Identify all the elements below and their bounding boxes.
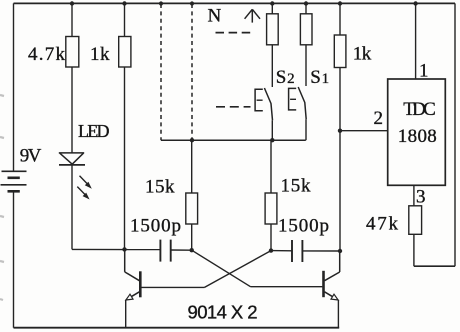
switch S1 blade — [298, 87, 306, 119]
svg-text:4.7k: 4.7k — [28, 44, 66, 65]
svg-text:S2: S2 — [276, 67, 295, 88]
node top rail at R4 — [304, 1, 308, 5]
transistor Q2 9014 (right) — [324, 251, 340, 328]
wire S2 to bus — [271, 120, 273, 140]
wire LED cathode down — [71, 165, 73, 250]
wire TDC pin 3 — [413, 185, 415, 206]
svg-text:1k: 1k — [353, 44, 372, 65]
dashed linkage to S2 — [216, 106, 251, 108]
arrow up (direction of motion) — [245, 9, 260, 22]
wire right base lead — [251, 286, 323, 288]
wire bottom ground rail — [14, 327, 340, 329]
svg-text:LED: LED — [78, 121, 110, 141]
wire C2 to right collector — [302, 250, 340, 252]
svg-text:9014 X 2: 9014 X 2 — [188, 301, 258, 322]
svg-text:9V: 9V — [20, 145, 42, 166]
IC U1 TDC1808 — [388, 79, 446, 185]
battery B1 9V — [1, 171, 27, 191]
node top rail at dashed right — [190, 1, 194, 5]
node left cap / 15k — [190, 248, 194, 252]
wire TDC pin 2 — [340, 130, 388, 132]
svg-text:TDC: TDC — [403, 99, 436, 120]
svg-text:S1: S1 — [310, 67, 329, 88]
svg-text:3: 3 — [416, 186, 426, 207]
wire 1k right branch — [339, 4, 341, 35]
svg-text:47k: 47k — [366, 214, 399, 235]
svg-text:1808: 1808 — [398, 126, 437, 147]
svg-text:15k: 15k — [281, 175, 312, 196]
node top rail at R3 — [270, 1, 274, 5]
LED light arrow 1 — [80, 176, 92, 189]
LED light arrow 2 — [77, 187, 89, 200]
resistor R4 (S1 pull-up) — [300, 14, 312, 45]
svg-text:N: N — [208, 6, 222, 27]
wire left 15k top — [191, 140, 193, 193]
node bus at S2/15k right — [270, 138, 274, 142]
node N dashed pointer — [216, 32, 252, 34]
wire 1k down to collector node — [124, 67, 126, 249]
wire R3 to S2 contact — [271, 45, 273, 87]
node left collector — [122, 247, 126, 251]
wire S1 to bus — [305, 119, 307, 140]
node top rail at dashed left — [159, 1, 163, 5]
node top rail at 4.7k — [70, 1, 74, 5]
capacitor C2 1500p right — [292, 240, 302, 262]
wire left 15k bottom — [191, 224, 193, 250]
wire right vertical — [454, 3, 456, 266]
switch S2 blade — [264, 88, 272, 120]
wire dashed branch right — [191, 4, 193, 140]
switch S2 actuator bracket — [255, 89, 263, 111]
wire S1 pullup branch — [305, 4, 307, 14]
wire 4.7k branch top — [71, 4, 73, 37]
resistor R2 1k — [119, 37, 131, 68]
wire switch bus — [161, 139, 306, 141]
resistor R6 15k right — [265, 193, 277, 224]
resistor R3 (S2 pull-up) — [267, 14, 279, 45]
wire 47k bottom to right vertical — [414, 265, 455, 267]
wire R7 down to collector node — [339, 68, 341, 252]
resistor R7 1k right — [334, 35, 346, 68]
wire cross-couple left base to right 15k node — [205, 251, 272, 288]
resistor R8 47k — [409, 206, 422, 235]
wire right 15k bottom — [270, 224, 272, 251]
svg-text:15k: 15k — [145, 176, 175, 197]
wire S2 pullup branch — [271, 4, 273, 14]
wire base node to C2 — [271, 250, 292, 252]
node bus at 15k left — [190, 138, 194, 142]
resistor R1 4.7k — [66, 37, 79, 68]
wire left vertical (battery branch) — [13, 3, 15, 170]
wire C1 to base node — [171, 249, 192, 251]
scan artifacts left edge — [0, 95, 4, 300]
svg-text:1: 1 — [419, 60, 429, 81]
svg-text:1k: 1k — [90, 44, 110, 65]
svg-text:2: 2 — [374, 108, 384, 129]
wire R4 to S1 contact — [305, 45, 307, 86]
wire cross-couple right base to left 15k node — [192, 250, 251, 287]
wire 47k bottom — [413, 234, 415, 266]
wire 4.7k to LED — [71, 67, 73, 153]
transistor Q1 9014 (left) — [125, 249, 141, 327]
svg-text:1500p: 1500p — [130, 215, 181, 236]
switch S1 actuator bracket — [289, 88, 297, 110]
resistor R5 15k left — [186, 193, 198, 224]
wire left base lead — [141, 286, 204, 288]
node top rail at 1k right — [338, 1, 342, 5]
wire 1k left branch top — [124, 4, 126, 37]
wire right 15k top — [270, 140, 272, 193]
wire TDC pin 1 — [415, 4, 417, 79]
node pin 2 tap — [338, 129, 342, 133]
wire top supply rail — [14, 2, 456, 4]
node right cap / 15k — [269, 248, 273, 252]
wire dashed branch left — [160, 4, 162, 140]
wire LED corner to left capacitor — [72, 248, 160, 250]
diode LED1 — [59, 153, 85, 165]
svg-text:1500p: 1500p — [278, 215, 329, 236]
node right collector — [338, 249, 342, 253]
node top rail at 1k — [122, 1, 126, 5]
capacitor C1 1500p left — [160, 240, 170, 262]
node top rail at pin1 — [413, 1, 417, 5]
